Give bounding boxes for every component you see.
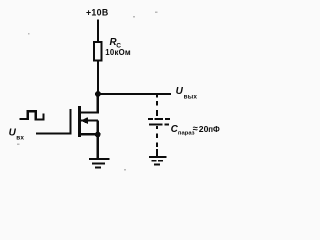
svg-text:20: 20 (199, 124, 209, 134)
transistor Q1 body lead (80, 120, 98, 122)
node B source junction dot (95, 132, 101, 138)
wire source to ground (97, 135, 99, 159)
capacitor Cparasitic bottom plate (dashed) (149, 124, 169, 126)
transistor Q1 gate bar (69, 109, 71, 135)
svg-text:+10В: +10В (86, 8, 108, 18)
ground (main, below source) (89, 158, 110, 168)
wire dashed lead to parasitic capacitor (156, 101, 158, 116)
node A drain junction dot (95, 91, 101, 97)
svg-text:10кОм: 10кОм (105, 48, 131, 57)
svg-text:пФ: пФ (208, 125, 220, 134)
wire supply to resistor (97, 20, 99, 42)
ground (capacitor, dashed style) (149, 156, 167, 165)
transistor Q1 body arrow (n-channel, pointing to channel) (80, 117, 88, 124)
wire body-to-source vertical (97, 121, 99, 135)
wire stub capacitor tap on output wire (156, 94, 158, 97)
wire output (node to Uout) (98, 93, 171, 95)
resistor RC (94, 42, 102, 61)
svg-text:≈: ≈ (193, 124, 198, 134)
input waveform symbol (square pulse) (20, 111, 44, 119)
wire dashed capacitor to ground (156, 126, 158, 156)
svg-text:вых: вых (184, 93, 198, 100)
background paper (0, 0, 236, 183)
transistor Q1 channel bar (78, 106, 81, 137)
wire resistor to drain node (97, 62, 99, 95)
svg-text:вх: вх (16, 135, 24, 142)
transistor Q1 source lead (80, 133, 98, 135)
capacitor Cparasitic top plate (dashed) (148, 118, 170, 120)
transistor Q1 drain lead (80, 94, 98, 112)
svg-text:U: U (176, 86, 184, 97)
wire input to gate (36, 131, 71, 134)
scan speckles (17, 12, 157, 171)
